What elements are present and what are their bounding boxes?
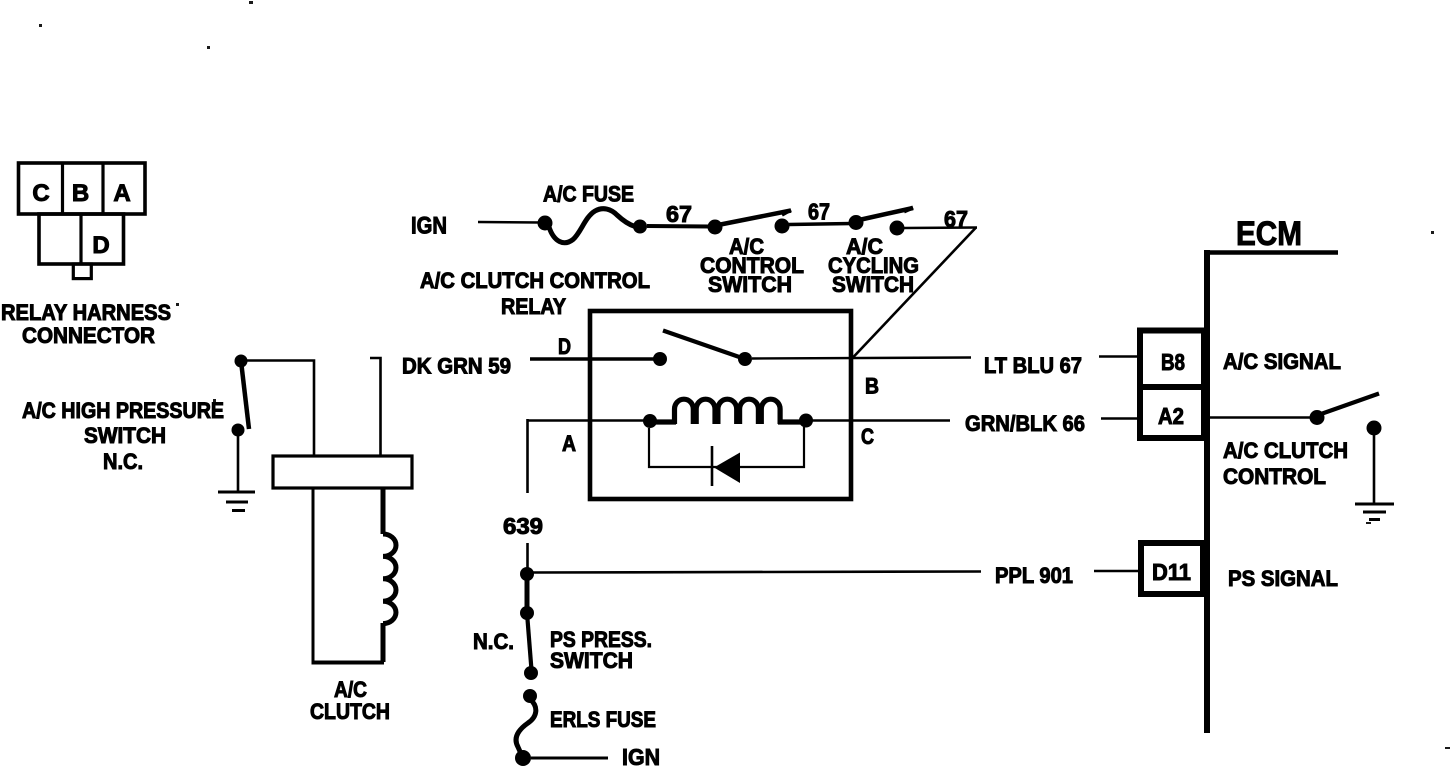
wire: LT BLU 67 to ECM B8	[1099, 355, 1140, 358]
wire: cycling switch output	[904, 226, 977, 229]
A/C clutch coil	[383, 488, 396, 662]
svg-text:RELAY: RELAY	[501, 294, 566, 319]
wire: IGN to A/C fuse	[478, 221, 540, 224]
node: PPL 901 junction	[520, 567, 534, 581]
svg-text:A/C CLUTCH: A/C CLUTCH	[1223, 438, 1348, 463]
wire: relay A down to 639	[526, 419, 529, 493]
svg-text:IGN: IGN	[411, 213, 447, 240]
svg-text:B: B	[72, 180, 89, 207]
wire: junction to PS press switch	[525, 578, 530, 608]
label PS PRESS. SWITCH	[550, 627, 652, 673]
svg-text:D: D	[558, 334, 571, 359]
ECM top line	[1204, 250, 1338, 255]
A/C clutch control switch (right)	[1310, 394, 1382, 436]
A/C control switch	[708, 210, 792, 235]
wire: high pressure switch to clutch feed	[247, 361, 314, 457]
wire: diagonal 67 to relay B	[852, 228, 976, 359]
PS pressure switch	[520, 606, 538, 680]
svg-text:D: D	[92, 232, 109, 259]
svg-text:N.C.: N.C.	[103, 449, 143, 474]
ECM terminal D11 box	[1141, 543, 1203, 594]
wire: switch to ground (right)	[1373, 433, 1376, 504]
label A/C CONTROL SWITCH	[700, 234, 804, 297]
svg-text:SWITCH: SWITCH	[708, 272, 792, 297]
svg-text:A2: A2	[1158, 403, 1184, 429]
label A/C CLUTCH CONTROL RELAY	[420, 268, 650, 319]
A/C clutch control relay box	[590, 311, 851, 499]
ground (left)	[218, 492, 255, 511]
label RELAY HARNESS CONNECTOR	[1, 300, 171, 348]
wire: DK GRN 59 drop to clutch	[370, 358, 381, 456]
svg-text:A/C FUSE: A/C FUSE	[543, 182, 634, 207]
svg-text:67: 67	[808, 199, 830, 225]
svg-text:A/C HIGH PRESSURE: A/C HIGH PRESSURE	[22, 398, 224, 423]
A/C cycling switch	[849, 208, 914, 236]
svg-text:PPL 901: PPL 901	[995, 563, 1073, 588]
ECM terminal A2 box	[1140, 387, 1204, 438]
svg-text:DK GRN 59: DK GRN 59	[402, 354, 511, 379]
svg-text:A: A	[562, 431, 576, 456]
ground (right)	[1355, 504, 1394, 520]
svg-text:RELAY HARNESS: RELAY HARNESS	[1, 300, 171, 325]
svg-text:B8: B8	[1161, 349, 1185, 375]
relay clamp diode loop	[649, 427, 804, 467]
wire: junction to PPL 901	[533, 572, 981, 573]
wire: switch to ground	[237, 435, 240, 492]
svg-text:CONTROL: CONTROL	[1223, 464, 1326, 489]
svg-text:SWITCH: SWITCH	[84, 423, 166, 448]
ECM terminal B8 box	[1140, 331, 1204, 388]
svg-text:ERLS FUSE: ERLS FUSE	[550, 707, 656, 732]
svg-text:PS SIGNAL: PS SIGNAL	[1228, 566, 1338, 591]
wire: GRN/BLK 66 to ECM A2	[1101, 417, 1140, 420]
wire: PPL 901 to ECM D11	[1094, 570, 1141, 573]
wire: A2 to A/C clutch control switch	[1210, 416, 1312, 419]
svg-text:A/C CLUTCH CONTROL: A/C CLUTCH CONTROL	[420, 268, 650, 293]
svg-text:SWITCH: SWITCH	[832, 272, 914, 297]
relay switch blade	[663, 331, 745, 360]
svg-text:N.C.: N.C.	[473, 629, 514, 654]
relay coil	[653, 399, 803, 424]
svg-text:A/C SIGNAL: A/C SIGNAL	[1223, 349, 1341, 374]
ERLS fuse	[515, 689, 537, 766]
wire: relay B out to LT BLU 67	[752, 358, 971, 359]
svg-text:LT BLU 67: LT BLU 67	[984, 353, 1082, 378]
svg-text:67: 67	[944, 206, 968, 232]
relay contact B (dot)	[738, 352, 752, 366]
ECM vertical line	[1204, 250, 1210, 733]
svg-text:C: C	[32, 180, 49, 207]
wire: ERLS fuse to IGN	[531, 757, 608, 760]
wire: clutch bottom	[312, 661, 385, 665]
svg-text:C: C	[861, 424, 874, 449]
label A/C CLUTCH CONTROL	[1223, 438, 1348, 489]
svg-text:ECM: ECM	[1236, 215, 1302, 253]
svg-text:B: B	[865, 374, 879, 399]
label A/C HIGH PRESSURE SWITCH N.C.	[22, 398, 224, 474]
svg-text:SWITCH: SWITCH	[550, 648, 633, 673]
relay coil terminal C (dot)	[799, 414, 813, 428]
relay harness connector body	[19, 163, 146, 279]
label A/C CYCLING SWITCH	[828, 234, 919, 297]
diode cathode bar	[711, 446, 714, 486]
wire: clutch left leg	[312, 488, 315, 664]
wire: DK GRN 59 to relay D contact	[530, 357, 654, 360]
svg-text:A: A	[113, 180, 130, 207]
svg-text:D11: D11	[1152, 559, 1191, 585]
svg-text:CLUTCH: CLUTCH	[310, 699, 390, 724]
svg-text:639: 639	[503, 513, 543, 539]
svg-text:CONNECTOR: CONNECTOR	[22, 323, 155, 348]
wire: 639 to junction	[526, 543, 529, 570]
diode triangle	[714, 453, 740, 484]
wire: fuse to control switch	[647, 224, 710, 229]
relay contact D (dot)	[653, 352, 667, 366]
svg-text:67: 67	[666, 201, 692, 227]
relay coil terminal A (dot)	[643, 414, 657, 428]
A/C fuse	[538, 209, 648, 243]
A/C high pressure switch	[232, 355, 250, 437]
svg-text:IGN: IGN	[622, 744, 660, 770]
wire: relay C out to GRN/BLK 66	[812, 419, 950, 421]
svg-text:GRN/BLK 66: GRN/BLK 66	[965, 411, 1085, 436]
wire: 639 node to relay A coil	[528, 419, 650, 422]
wire: control switch to 67	[789, 224, 852, 225]
label A/C CLUTCH	[310, 677, 390, 724]
A/C clutch body	[273, 456, 412, 488]
